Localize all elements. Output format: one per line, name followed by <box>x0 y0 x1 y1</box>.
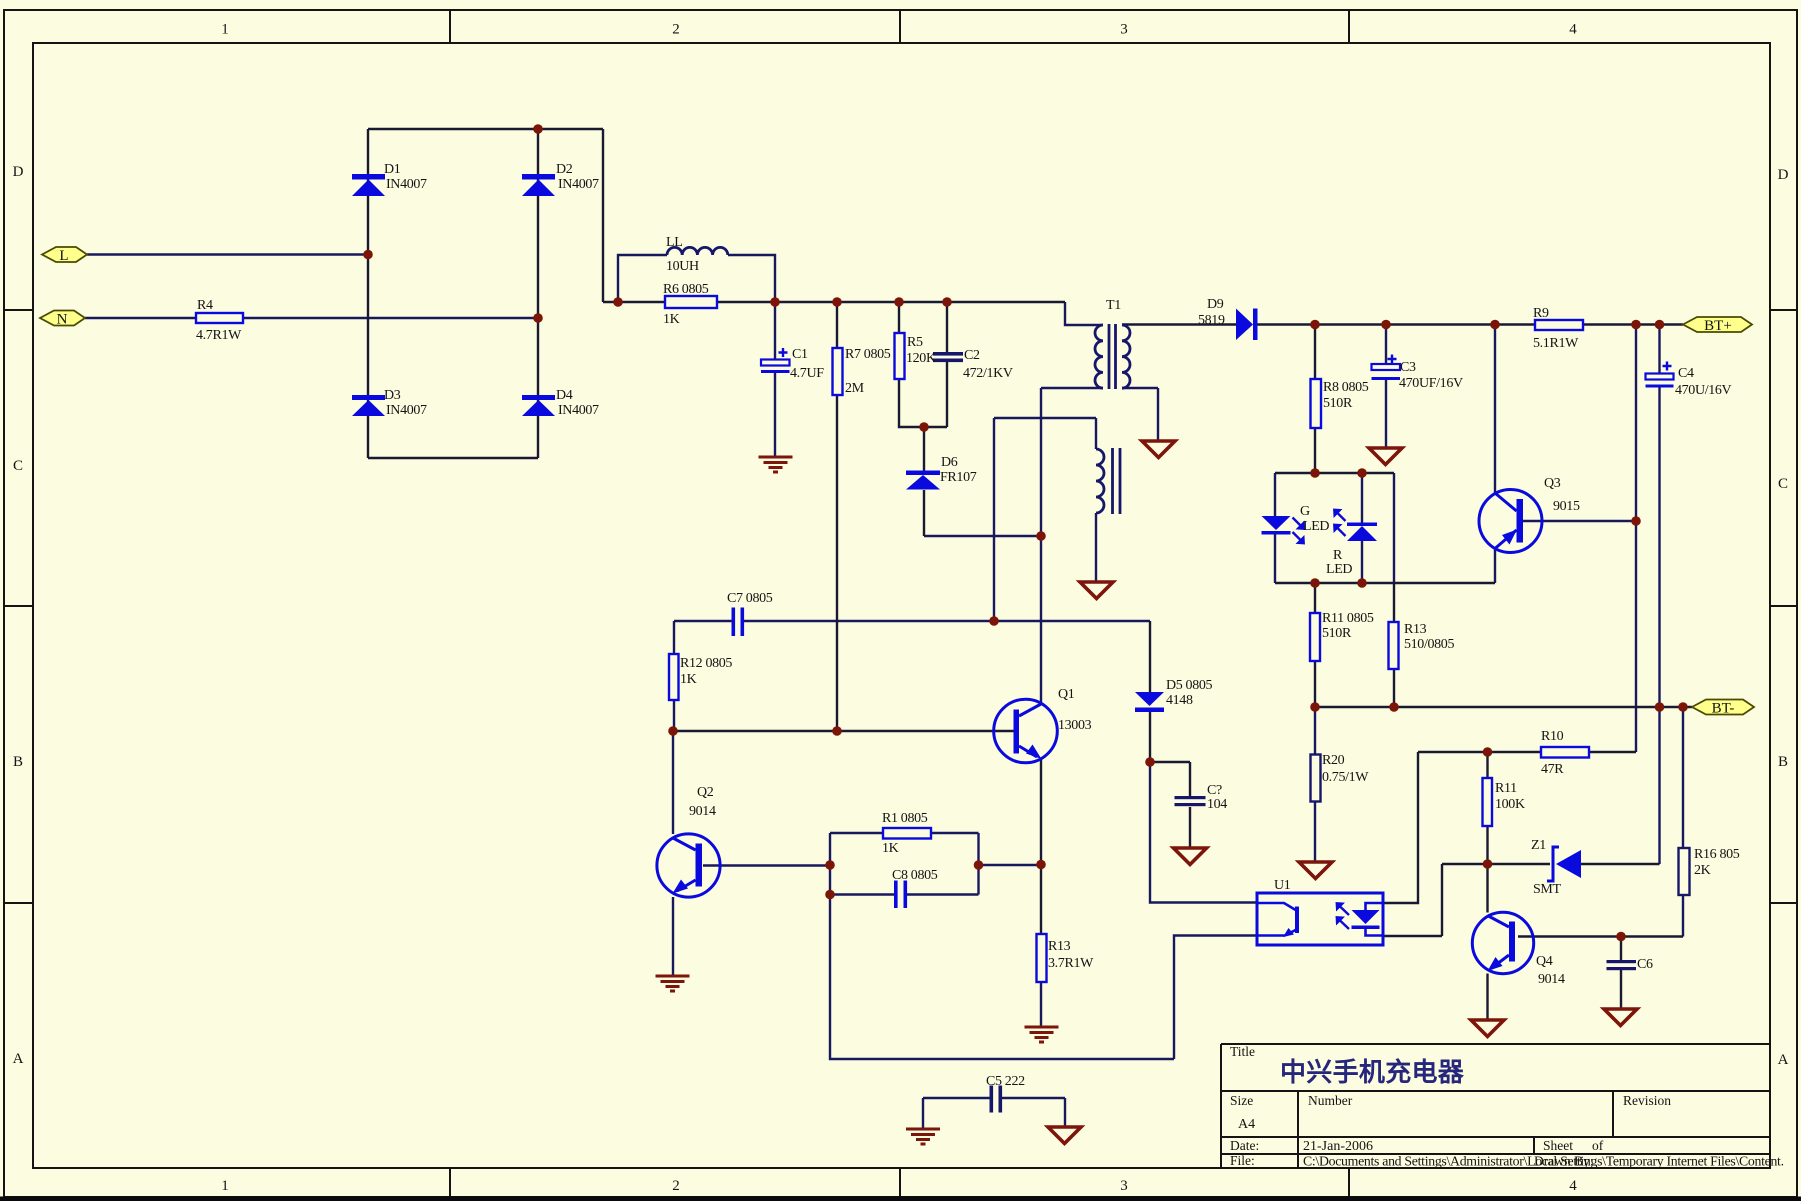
svg-text:IN4007: IN4007 <box>558 177 599 192</box>
svg-text:Z1: Z1 <box>1531 838 1546 853</box>
svg-text:D1: D1 <box>384 162 401 177</box>
svg-text:0.75/1W: 0.75/1W <box>1322 770 1369 785</box>
svg-text:9015: 9015 <box>1553 499 1580 514</box>
svg-text:21-Jan-2006: 21-Jan-2006 <box>1303 1139 1373 1154</box>
svg-text:D: D <box>13 164 24 180</box>
svg-text:LL: LL <box>666 235 682 250</box>
svg-text:C7 0805: C7 0805 <box>727 591 773 606</box>
svg-text:Q4: Q4 <box>1536 954 1553 969</box>
svg-text:D: D <box>1778 167 1789 183</box>
svg-text:C?: C? <box>1207 783 1222 798</box>
svg-text:47R: 47R <box>1541 762 1564 777</box>
svg-text:2M: 2M <box>845 381 865 396</box>
svg-text:1K: 1K <box>663 312 680 327</box>
svg-text:C1: C1 <box>792 347 808 362</box>
svg-text:BT-: BT- <box>1712 701 1735 717</box>
svg-text:Q3: Q3 <box>1544 476 1561 491</box>
svg-text:Sheet: Sheet <box>1543 1138 1573 1153</box>
svg-text:A: A <box>13 1051 24 1067</box>
svg-text:R4: R4 <box>197 298 213 313</box>
svg-text:R7 0805: R7 0805 <box>845 347 891 362</box>
svg-text:R8 0805: R8 0805 <box>1323 380 1369 395</box>
svg-text:9014: 9014 <box>689 804 716 819</box>
svg-text:10UH: 10UH <box>666 259 699 274</box>
svg-text:LED: LED <box>1326 562 1352 577</box>
svg-text:C4: C4 <box>1678 366 1694 381</box>
svg-text:A: A <box>1778 1052 1789 1068</box>
svg-text:4.7UF: 4.7UF <box>790 366 824 381</box>
svg-text:C6: C6 <box>1637 957 1653 972</box>
svg-text:File:: File: <box>1230 1153 1255 1168</box>
svg-text:3.7R1W: 3.7R1W <box>1048 956 1094 971</box>
svg-text:4: 4 <box>1569 22 1577 38</box>
svg-text:L: L <box>59 248 68 264</box>
svg-text:2K: 2K <box>1694 863 1711 878</box>
svg-text:2: 2 <box>672 22 680 38</box>
svg-text:4.7R1W: 4.7R1W <box>196 328 242 343</box>
svg-text:R: R <box>1333 548 1343 563</box>
svg-text:R16 805: R16 805 <box>1694 847 1740 862</box>
svg-text:Title: Title <box>1230 1044 1255 1059</box>
svg-text:1: 1 <box>221 22 229 38</box>
svg-text:13003: 13003 <box>1058 718 1092 733</box>
svg-text:3: 3 <box>1120 1178 1128 1194</box>
svg-text:R5: R5 <box>907 335 923 350</box>
svg-text:Q1: Q1 <box>1058 687 1075 702</box>
svg-text:Revision: Revision <box>1623 1093 1671 1108</box>
svg-text:B: B <box>13 754 23 770</box>
svg-text:100K: 100K <box>1495 797 1525 812</box>
svg-text:B: B <box>1778 754 1788 770</box>
svg-text:C5 222: C5 222 <box>986 1074 1025 1089</box>
svg-text:C8 0805: C8 0805 <box>892 868 938 883</box>
svg-text:R13: R13 <box>1404 622 1427 637</box>
svg-text:R9: R9 <box>1533 306 1549 321</box>
svg-text:N: N <box>57 312 68 328</box>
svg-text:D3: D3 <box>384 388 401 403</box>
svg-text:4148: 4148 <box>1166 693 1193 708</box>
svg-text:9014: 9014 <box>1538 972 1565 987</box>
svg-text:C2: C2 <box>964 348 980 363</box>
svg-text:Drawn By:: Drawn By: <box>1534 1154 1594 1169</box>
svg-text:IN4007: IN4007 <box>386 177 427 192</box>
svg-text:FR107: FR107 <box>940 470 977 485</box>
svg-text:R11: R11 <box>1495 781 1517 796</box>
svg-text:of: of <box>1592 1138 1604 1153</box>
svg-text:D2: D2 <box>556 162 573 177</box>
svg-text:R6 0805: R6 0805 <box>663 282 709 297</box>
svg-text:SMT: SMT <box>1533 882 1562 897</box>
svg-text:Date:: Date: <box>1230 1138 1259 1153</box>
svg-text:T1: T1 <box>1106 298 1121 313</box>
svg-text:5819: 5819 <box>1198 313 1225 328</box>
svg-text:510R: 510R <box>1322 626 1352 641</box>
svg-text:2: 2 <box>672 1178 680 1194</box>
svg-text:A4: A4 <box>1238 1117 1255 1132</box>
svg-text:5.1R1W: 5.1R1W <box>1533 336 1579 351</box>
svg-text:1K: 1K <box>680 672 697 687</box>
svg-text:510R: 510R <box>1323 396 1353 411</box>
svg-text:R11 0805: R11 0805 <box>1322 611 1374 626</box>
svg-text:Number: Number <box>1308 1093 1353 1108</box>
svg-text:1: 1 <box>221 1178 229 1194</box>
svg-text:中兴手机充电器: 中兴手机充电器 <box>1280 1057 1465 1087</box>
svg-text:D9: D9 <box>1207 297 1224 312</box>
svg-text:C: C <box>13 458 23 474</box>
svg-text:470UF/16V: 470UF/16V <box>1399 376 1463 391</box>
svg-text:1K: 1K <box>882 841 899 856</box>
svg-text:470U/16V: 470U/16V <box>1675 383 1732 398</box>
svg-text:120K: 120K <box>906 351 936 366</box>
svg-text:BT+: BT+ <box>1704 318 1732 334</box>
svg-text:104: 104 <box>1207 797 1227 812</box>
svg-text:3: 3 <box>1120 22 1128 38</box>
svg-text:LED: LED <box>1303 519 1329 534</box>
svg-text:IN4007: IN4007 <box>558 403 599 418</box>
svg-text:R1 0805: R1 0805 <box>882 811 928 826</box>
svg-text:R10: R10 <box>1541 729 1564 744</box>
svg-text:4: 4 <box>1569 1178 1577 1194</box>
svg-text:R20: R20 <box>1322 753 1345 768</box>
svg-text:R13: R13 <box>1048 939 1071 954</box>
svg-text:U1: U1 <box>1274 878 1291 893</box>
svg-text:C: C <box>1778 476 1788 492</box>
svg-text:G: G <box>1300 504 1310 519</box>
svg-text:Q2: Q2 <box>697 785 714 800</box>
svg-text:R12 0805: R12 0805 <box>680 656 732 671</box>
svg-text:510/0805: 510/0805 <box>1404 637 1454 652</box>
svg-text:D5 0805: D5 0805 <box>1166 678 1213 693</box>
svg-text:472/1KV: 472/1KV <box>963 366 1013 381</box>
svg-text:C3: C3 <box>1400 360 1416 375</box>
svg-text:IN4007: IN4007 <box>386 403 427 418</box>
svg-text:Size: Size <box>1230 1093 1253 1108</box>
svg-text:D6: D6 <box>941 455 958 470</box>
svg-text:D4: D4 <box>556 388 573 403</box>
